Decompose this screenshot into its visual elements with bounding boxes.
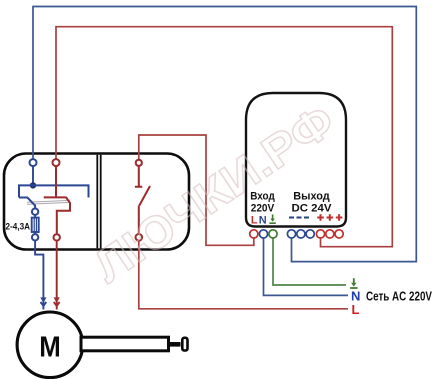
label N mains (351, 289, 360, 304)
terminal PSU earth (269, 230, 277, 238)
motor M1 body (17, 312, 83, 378)
wire fuse to lower terminal (34, 232, 36, 234)
svg-text:N: N (259, 214, 267, 226)
wire protector to motor (blue) (35, 241, 43, 310)
wire earth from PSU input to label (273, 238, 346, 285)
label Vhod (250, 191, 275, 203)
terminal switch top (136, 160, 142, 166)
wire DC plus (red bus from PSU output to protector) (56, 27, 392, 247)
wire contact to fuse (34, 215, 36, 218)
label N input (259, 214, 267, 226)
wire DC minus (blue bus from PSU output to protector) (33, 7, 416, 262)
terminal PSU minus3 (306, 230, 314, 238)
wire mains L from switch to label (139, 241, 348, 309)
terminal PSU N (259, 230, 267, 238)
svg-text:Сеть AC 220V: Сеть AC 220V (366, 290, 433, 304)
plus marks (317, 214, 342, 221)
fuse 2-4,3A (32, 218, 39, 232)
watermark (84, 94, 344, 293)
contact circle upper (32, 209, 38, 215)
terminal PSU minus1 (287, 230, 295, 238)
wire AC line from PSU input L to switch (139, 135, 254, 245)
label Set AC 220V (366, 290, 433, 304)
relay blade blue (19, 198, 35, 209)
terminal protector bottom blue (32, 234, 38, 240)
terminal PSU minus2 (297, 230, 305, 238)
terminal PSU plus3 (335, 230, 343, 238)
terminal protector top red (53, 159, 60, 166)
label DC 24V (292, 203, 333, 215)
wire mains N from PSU input to label (264, 238, 349, 295)
earth symbol label (350, 278, 357, 288)
wire blue terminal to relay bracket (32, 166, 34, 185)
label L mains (352, 302, 360, 317)
label L input (251, 214, 258, 226)
terminal PSU plus1 (316, 230, 324, 238)
label Vyhod (293, 191, 330, 203)
terminal protector bottom red (54, 234, 60, 240)
block divider double line (97, 155, 100, 248)
svg-text:Выход: Выход (293, 191, 330, 203)
label M (39, 332, 61, 364)
switch contact assembly (135, 166, 150, 234)
svg-text:2-4,3A: 2-4,3A (6, 222, 31, 233)
svg-text:220V: 220V (251, 203, 275, 215)
label 220V (251, 203, 275, 215)
earth glyph input (269, 214, 275, 223)
thermal contact red assembly (44, 166, 70, 234)
terminal switch bottom (136, 234, 143, 241)
svg-text:L: L (352, 302, 360, 317)
terminal protector top blue (30, 159, 37, 166)
label 2-4,3A (6, 222, 31, 233)
motor protector block outline (4, 154, 189, 250)
power supply U1 outline (246, 93, 346, 227)
arrow blue motor lead (40, 297, 46, 306)
svg-text:L: L (251, 214, 258, 226)
motor shaft (81, 337, 188, 351)
minus marks (289, 217, 309, 219)
heater element hatch (27, 200, 70, 204)
terminal PSU L (250, 230, 258, 238)
terminal PSU plus2 (326, 230, 334, 238)
svg-text:M: M (39, 332, 61, 364)
arrow red motor lead (54, 297, 60, 306)
wire protector to motor (red) (56, 241, 58, 310)
svg-text:DC 24V: DC 24V (292, 203, 333, 215)
junction dot (30, 182, 36, 188)
thermal relay bracket (19, 185, 89, 197)
